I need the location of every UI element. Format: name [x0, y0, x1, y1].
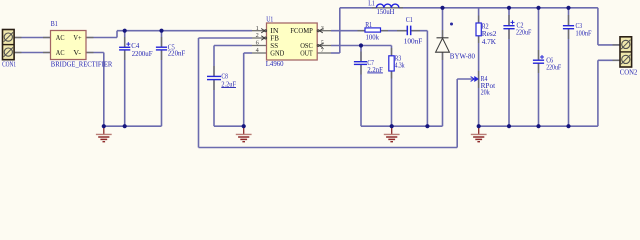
- svg-text:4.7K: 4.7K: [482, 37, 497, 46]
- svg-text:2200uF: 2200uF: [132, 49, 153, 58]
- svg-text:6: 6: [256, 40, 259, 47]
- svg-text:OUT: OUT: [300, 49, 313, 58]
- svg-text:100k: 100k: [366, 32, 380, 41]
- svg-text:4.3k: 4.3k: [395, 61, 405, 70]
- svg-text:L1: L1: [368, 0, 375, 8]
- svg-text:220nF: 220nF: [168, 48, 185, 57]
- svg-text:AC: AC: [56, 48, 65, 57]
- svg-text:5: 5: [321, 40, 324, 47]
- svg-text:FCOMP: FCOMP: [290, 26, 313, 35]
- svg-text:220uF: 220uF: [546, 62, 561, 71]
- svg-text:100nF: 100nF: [404, 36, 423, 45]
- svg-text:C1: C1: [406, 15, 413, 24]
- svg-text:20k: 20k: [481, 88, 490, 97]
- svg-text:V-: V-: [73, 48, 81, 57]
- svg-text:B1: B1: [51, 19, 58, 28]
- svg-text:2: 2: [256, 32, 259, 39]
- svg-text:R1: R1: [365, 20, 372, 29]
- svg-text:BYW-80: BYW-80: [450, 51, 475, 60]
- svg-text:3: 3: [321, 25, 324, 32]
- svg-text:7: 7: [321, 47, 324, 54]
- svg-text:V+: V+: [73, 33, 81, 42]
- svg-text:1: 1: [256, 25, 259, 32]
- svg-text:BRIDGE_RECTIFIER: BRIDGE_RECTIFIER: [51, 59, 113, 68]
- svg-text:L4960: L4960: [266, 59, 284, 68]
- svg-text:CON1: CON1: [2, 60, 16, 69]
- svg-text:220uF: 220uF: [516, 28, 531, 37]
- svg-text:GND: GND: [270, 49, 285, 58]
- svg-text:U1: U1: [266, 15, 273, 24]
- svg-text:AC: AC: [56, 33, 65, 42]
- svg-text:CON2: CON2: [620, 68, 638, 77]
- svg-text:100nF: 100nF: [576, 28, 592, 37]
- svg-text:150uH: 150uH: [377, 7, 395, 16]
